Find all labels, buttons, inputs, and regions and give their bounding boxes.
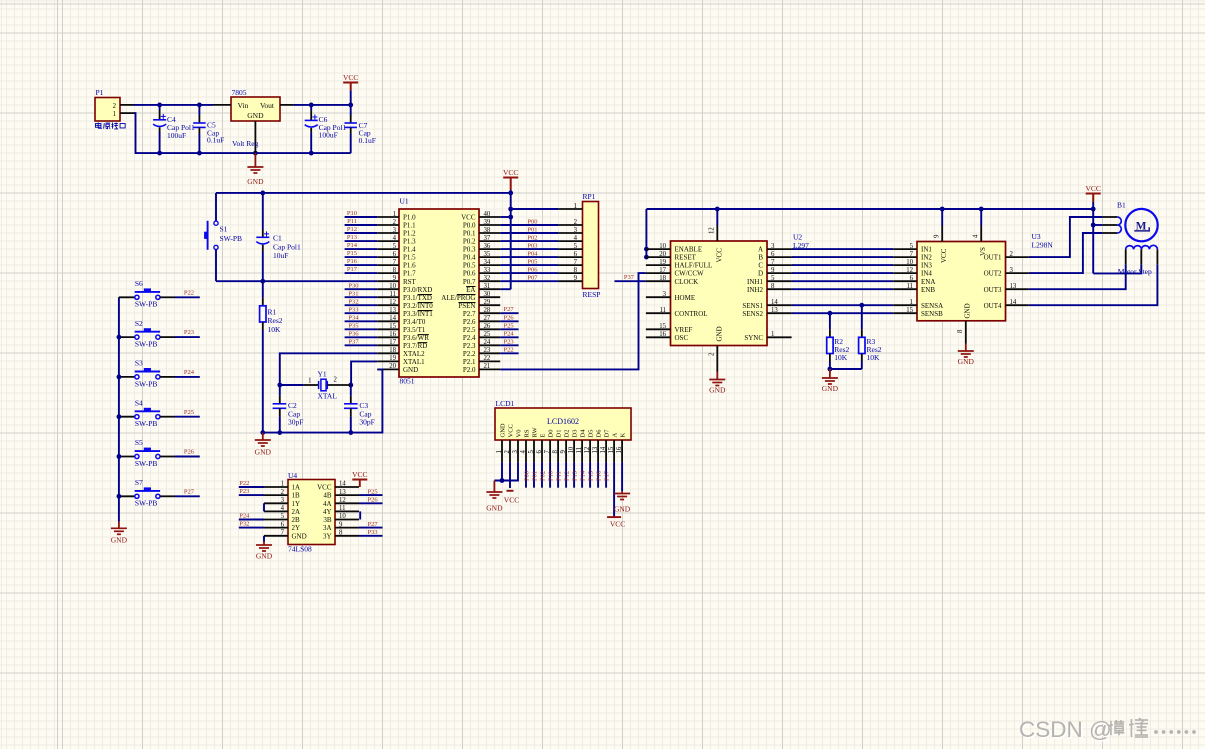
svg-text:D3: D3 xyxy=(572,430,579,438)
wire LCD pin15 A to VCC xyxy=(607,462,625,528)
svg-text:1: 1 xyxy=(308,378,311,385)
svg-text:2A: 2A xyxy=(292,508,301,516)
svg-text:P23: P23 xyxy=(184,329,194,336)
svg-text:32: 32 xyxy=(484,275,491,282)
svg-text:P0.2: P0.2 xyxy=(463,238,476,246)
power port VCC (LCD pin2) xyxy=(504,462,519,504)
node label P22 (U4) xyxy=(239,480,249,487)
wire LCD pin16 K to GND xyxy=(621,462,623,491)
node labels P27-P22 xyxy=(504,306,515,353)
svg-text:P30: P30 xyxy=(348,282,358,289)
svg-text:17: 17 xyxy=(659,267,666,274)
node label P23 (U4) xyxy=(239,488,249,495)
svg-text:HOME: HOME xyxy=(675,294,696,302)
svg-text:9: 9 xyxy=(934,234,941,238)
svg-text:RESET: RESET xyxy=(675,254,697,262)
svg-text:CONTROL: CONTROL xyxy=(675,310,708,318)
svg-text:2: 2 xyxy=(334,377,338,384)
ground GND (U4) xyxy=(256,542,273,561)
wire net P27 (U4 pin9) xyxy=(359,527,383,529)
svg-text:U4: U4 xyxy=(288,471,297,480)
svg-text:30: 30 xyxy=(484,291,491,298)
svg-text:1A: 1A xyxy=(292,484,301,492)
wire U1 pin21 P2.0 to U2 CW/CCW xyxy=(500,273,646,369)
switch S6 SW-PB (net P22) xyxy=(119,279,200,309)
op-amp U3 L298N motor driver xyxy=(893,209,1053,344)
svg-text:13: 13 xyxy=(771,307,778,314)
svg-text:100uF: 100uF xyxy=(167,131,186,140)
svg-text:P22: P22 xyxy=(239,480,249,487)
svg-text:10K: 10K xyxy=(268,325,282,334)
svg-text:10: 10 xyxy=(339,513,346,520)
svg-text:VCC: VCC xyxy=(940,248,948,263)
svg-text:3: 3 xyxy=(512,450,519,454)
wire U1 pin40 VCC xyxy=(500,216,511,218)
svg-text:30pF: 30pF xyxy=(288,417,303,426)
svg-text:10uF: 10uF xyxy=(273,251,288,260)
op-amp U2 L297 stepper controller xyxy=(646,209,809,372)
svg-text:P24: P24 xyxy=(184,369,195,376)
wire VIN rail (P1 pin2 to 7805 Vin) xyxy=(134,104,213,106)
svg-text:IN3: IN3 xyxy=(921,262,932,270)
svg-text:OUT3: OUT3 xyxy=(984,286,1002,294)
watermark CSDN xyxy=(1019,717,1196,744)
svg-text:16: 16 xyxy=(389,331,396,338)
svg-text:ENB: ENB xyxy=(921,286,935,294)
switch S1 SW-PB xyxy=(204,193,242,281)
motor B1 Motor Step xyxy=(1102,201,1157,276)
svg-text:P01: P01 xyxy=(527,226,537,233)
svg-text:100uF: 100uF xyxy=(319,131,338,140)
power port VCC (above U1) xyxy=(503,168,518,289)
svg-text:P07: P07 xyxy=(527,275,538,282)
junction VCC-pin40 xyxy=(508,215,513,220)
svg-text:P24: P24 xyxy=(504,330,515,337)
wire R2-R3 ground link xyxy=(830,368,862,370)
svg-text:P1: P1 xyxy=(96,88,104,97)
junction XTAL1-C3 xyxy=(348,383,353,388)
wire nets LCD data/control xyxy=(526,462,606,488)
svg-text:P32: P32 xyxy=(348,298,358,305)
svg-text:6: 6 xyxy=(536,450,543,454)
svg-text:P06: P06 xyxy=(527,267,538,274)
svg-text:2B: 2B xyxy=(292,516,301,524)
power port VCC (regulator output) xyxy=(343,73,358,105)
svg-text:P17: P17 xyxy=(604,470,611,481)
svg-text:GND: GND xyxy=(822,384,839,393)
svg-text:GND: GND xyxy=(958,357,975,366)
svg-text:6: 6 xyxy=(910,275,914,282)
svg-text:22: 22 xyxy=(484,355,491,362)
junction VIN-C5 xyxy=(197,103,202,108)
wire VCC bus (U2/U3/motor) xyxy=(646,208,1093,210)
svg-text:P0.3: P0.3 xyxy=(463,246,476,254)
junction VCC-resetrail xyxy=(508,191,513,196)
svg-text:Y1: Y1 xyxy=(318,370,327,379)
wire net P25 (U4 pin13) xyxy=(359,494,383,496)
svg-text:SW-PB: SW-PB xyxy=(135,379,158,388)
junction SENS1-R3 xyxy=(859,303,864,308)
svg-text:VCC: VCC xyxy=(317,484,332,492)
svg-text:P10: P10 xyxy=(548,471,555,481)
svg-text:6: 6 xyxy=(574,251,578,258)
junction bus-S4 xyxy=(117,414,122,419)
svg-text:21: 21 xyxy=(484,363,491,370)
svg-text:12: 12 xyxy=(906,267,913,274)
node label P37 xyxy=(624,274,635,281)
wire XTAL2 (U1 pin18 to crystal) xyxy=(280,353,378,385)
svg-text:A: A xyxy=(612,433,619,438)
svg-text:P0.5: P0.5 xyxy=(463,262,476,270)
svg-text:0.1uF: 0.1uF xyxy=(359,136,376,145)
junction GNDrail-C6 xyxy=(309,151,314,156)
svg-text:7: 7 xyxy=(393,259,397,266)
svg-text:Motor Step: Motor Step xyxy=(1118,267,1152,276)
svg-text:9: 9 xyxy=(574,275,578,282)
svg-text:14: 14 xyxy=(389,315,396,322)
svg-text:P00: P00 xyxy=(527,218,537,225)
svg-text:GND: GND xyxy=(292,532,307,540)
svg-text:P12: P12 xyxy=(564,471,571,481)
svg-text:INH1: INH1 xyxy=(747,278,763,286)
svg-text:P36: P36 xyxy=(348,330,359,337)
junction VCCdrop-RESET xyxy=(644,255,649,260)
svg-text:39: 39 xyxy=(484,219,491,226)
svg-text:P2.7: P2.7 xyxy=(463,310,476,318)
svg-text:P27: P27 xyxy=(184,488,195,495)
svg-text:P0.6: P0.6 xyxy=(463,270,476,278)
svg-text:3Y: 3Y xyxy=(323,532,332,540)
svg-text:V0: V0 xyxy=(516,430,523,438)
svg-text:VCC: VCC xyxy=(503,168,518,177)
svg-text:14: 14 xyxy=(600,446,607,453)
svg-text:13: 13 xyxy=(1010,283,1017,290)
wire OUT1 to motor winding A top xyxy=(1029,217,1103,257)
svg-text:3A: 3A xyxy=(323,524,332,532)
svg-text:K: K xyxy=(620,433,627,438)
svg-text:P26: P26 xyxy=(504,314,515,321)
svg-text:12: 12 xyxy=(584,446,591,453)
svg-text:P26: P26 xyxy=(184,449,195,456)
junction bus-U2pin12 xyxy=(715,207,720,212)
svg-text:OUT4: OUT4 xyxy=(984,302,1002,310)
svg-text:15: 15 xyxy=(659,323,666,330)
svg-text:5: 5 xyxy=(771,275,775,282)
svg-text:30pF: 30pF xyxy=(359,417,374,426)
svg-text:LCD1: LCD1 xyxy=(496,399,515,408)
wire net P23 (U4 pin2) xyxy=(239,494,264,496)
svg-text:17: 17 xyxy=(389,339,396,346)
wire U4 1Y-2A loop xyxy=(263,503,265,511)
svg-text:14: 14 xyxy=(771,299,778,306)
svg-text:P11: P11 xyxy=(347,218,357,225)
svg-text:9: 9 xyxy=(560,450,567,454)
svg-text:P02: P02 xyxy=(527,235,537,242)
svg-text:P16: P16 xyxy=(347,258,358,265)
svg-text:P00: P00 xyxy=(523,471,530,481)
svg-text:10K: 10K xyxy=(834,353,848,362)
svg-text:VCC: VCC xyxy=(508,424,515,437)
svg-text:VCC: VCC xyxy=(343,73,358,82)
svg-text:10: 10 xyxy=(659,243,666,250)
wire nets P30-P37 (U1 pins 10-17) xyxy=(345,289,378,345)
svg-text:18: 18 xyxy=(389,347,396,354)
svg-text:1: 1 xyxy=(496,450,503,453)
svg-text:8: 8 xyxy=(552,450,559,454)
capacitor C4 Cap Pol1 100uF xyxy=(153,105,195,153)
wire net P37 (to U2 CLOCK) xyxy=(615,280,646,282)
svg-text:L298N: L298N xyxy=(1032,241,1054,250)
ground GND (LCD right) xyxy=(614,491,631,513)
svg-text:OUT2: OUT2 xyxy=(984,270,1002,278)
svg-text:P37: P37 xyxy=(348,338,359,345)
svg-text:P13: P13 xyxy=(347,234,357,241)
svg-text:RW: RW xyxy=(532,427,539,438)
switch S7 SW-PB (net P27) xyxy=(119,478,200,508)
svg-text:P1.6: P1.6 xyxy=(403,262,416,270)
svg-text:6: 6 xyxy=(281,521,285,528)
wire LCD pin1 GND xyxy=(501,462,503,480)
svg-text:P0.1: P0.1 xyxy=(463,230,476,238)
svg-text:4: 4 xyxy=(574,235,578,242)
svg-text:P01: P01 xyxy=(531,471,538,481)
svg-text:D6: D6 xyxy=(596,429,603,438)
svg-text:VS: VS xyxy=(979,247,987,256)
svg-text:RESP: RESP xyxy=(583,290,601,299)
svg-text:P33: P33 xyxy=(368,529,378,536)
svg-text:INH2: INH2 xyxy=(747,286,763,294)
wire GND return rail (P1 pin1 along bottom) xyxy=(134,113,351,153)
svg-text:GND: GND xyxy=(111,535,128,544)
wire VCC to winding B centre tap xyxy=(1093,265,1141,274)
svg-text:IN2: IN2 xyxy=(921,254,932,262)
svg-text:P32: P32 xyxy=(239,521,249,528)
wire net SENS2 (U2 to U3 SENSB) xyxy=(792,312,894,314)
svg-text:6: 6 xyxy=(393,251,397,258)
junction VIN-C4 xyxy=(157,103,162,108)
svg-text:VCC: VCC xyxy=(610,520,625,529)
svg-text:ENA: ENA xyxy=(921,278,935,286)
svg-text:P11: P11 xyxy=(556,471,563,481)
node label P27 (U4) xyxy=(368,521,379,528)
crystal Y1 XTAL xyxy=(303,370,350,401)
capacitor C2 Cap 30pF xyxy=(273,385,304,433)
capacitor C6 Cap Pol1 100uF xyxy=(305,105,347,153)
power port VCC (U4 pin14) xyxy=(352,470,367,487)
svg-text:20: 20 xyxy=(659,251,666,258)
svg-text:8: 8 xyxy=(574,267,578,274)
svg-text:D7: D7 xyxy=(604,429,611,438)
svg-text:OSC: OSC xyxy=(675,334,689,342)
svg-text:3B: 3B xyxy=(323,516,332,524)
svg-text:8051: 8051 xyxy=(400,377,415,386)
svg-text:P33: P33 xyxy=(348,306,358,313)
svg-text:RP1: RP1 xyxy=(583,192,596,201)
svg-text:E: E xyxy=(540,434,547,438)
svg-text:Vout: Vout xyxy=(260,101,275,110)
svg-text:9: 9 xyxy=(339,521,343,528)
svg-text:GND: GND xyxy=(486,504,503,513)
svg-text:2: 2 xyxy=(1010,251,1014,258)
svg-text:D5: D5 xyxy=(588,430,595,438)
wire U4 4Y-3B loop xyxy=(359,511,361,519)
svg-text:1B: 1B xyxy=(292,492,301,500)
svg-text:3: 3 xyxy=(393,227,397,234)
svg-text:40: 40 xyxy=(484,211,491,218)
svg-text:P0.7: P0.7 xyxy=(463,278,476,286)
svg-text:5: 5 xyxy=(574,243,578,250)
junction bus-U3pin4 xyxy=(979,207,984,212)
svg-text:HALF/FULL: HALF/FULL xyxy=(675,262,713,270)
junction LCD gnd xyxy=(500,478,505,483)
junction GNDrail-7805 xyxy=(253,151,258,156)
ground GND (U2) xyxy=(709,372,726,395)
svg-text:SW-PB: SW-PB xyxy=(135,419,158,428)
ground GND (power supply) xyxy=(247,153,264,186)
svg-text:SW-PB: SW-PB xyxy=(220,234,243,243)
svg-text:GND: GND xyxy=(964,303,972,318)
svg-text:36: 36 xyxy=(484,243,491,250)
capacitor C3 Cap 30pF xyxy=(344,385,375,433)
svg-text:P23: P23 xyxy=(239,488,249,495)
svg-text:CLOCK: CLOCK xyxy=(675,278,699,286)
svg-text:P25: P25 xyxy=(184,409,194,416)
junction R2-gnd xyxy=(828,367,833,372)
svg-text:S5: S5 xyxy=(135,438,143,447)
svg-text:20: 20 xyxy=(389,363,396,370)
svg-text:18: 18 xyxy=(659,275,666,282)
svg-text:14: 14 xyxy=(1010,299,1017,306)
capacitor C7 Cap 0.1uF xyxy=(344,105,375,153)
svg-text:IN4: IN4 xyxy=(921,270,932,278)
wire nets P22-P27 (U1 P2 port) xyxy=(500,313,518,353)
resistor R2 Res2 10K xyxy=(827,313,850,369)
svg-text:P1.7: P1.7 xyxy=(403,270,416,278)
svg-text:S3: S3 xyxy=(135,359,143,368)
svg-text:4: 4 xyxy=(393,235,397,242)
svg-text:P1.0: P1.0 xyxy=(403,214,416,222)
svg-text:S6: S6 xyxy=(135,279,143,288)
svg-text:2: 2 xyxy=(393,219,397,226)
svg-text:S7: S7 xyxy=(135,478,143,487)
node labels P30-P37 xyxy=(348,282,359,345)
svg-text:P1.3: P1.3 xyxy=(403,238,416,246)
wire OUT2 to motor winding A bottom xyxy=(1029,233,1103,273)
svg-text:11: 11 xyxy=(659,307,666,314)
svg-text:4: 4 xyxy=(973,234,980,238)
svg-text:29: 29 xyxy=(484,299,491,306)
svg-text:2: 2 xyxy=(281,489,285,496)
svg-text:2: 2 xyxy=(113,103,117,110)
node labels P00-P07 xyxy=(527,218,538,281)
svg-text:RST: RST xyxy=(403,278,417,286)
svg-text:5: 5 xyxy=(393,243,397,250)
svg-text:P22: P22 xyxy=(504,346,514,353)
svg-text:15: 15 xyxy=(906,307,913,314)
svg-text:10: 10 xyxy=(389,283,396,290)
svg-text:RS: RS xyxy=(524,429,531,437)
svg-text:7: 7 xyxy=(771,259,775,266)
wire XTAL1 (U1 pin19 to crystal) xyxy=(351,361,377,385)
node label P33 (U4) xyxy=(368,529,378,536)
svg-text:16: 16 xyxy=(659,331,666,338)
svg-text:8: 8 xyxy=(393,267,397,274)
svg-text:7: 7 xyxy=(281,530,285,537)
svg-text:P24: P24 xyxy=(239,513,250,520)
svg-text:1: 1 xyxy=(574,203,577,210)
op-amp U4 74LS08 quad AND gate xyxy=(264,471,359,554)
wire nets U2 phase outputs to U3 inputs xyxy=(792,249,894,289)
connector P1 电源接口 xyxy=(95,88,134,129)
wire net P33 (U4 pin8) xyxy=(359,535,383,537)
svg-text:VCC: VCC xyxy=(352,470,367,479)
svg-text:P27: P27 xyxy=(368,521,379,528)
svg-text:P2.0: P2.0 xyxy=(463,366,476,374)
svg-text:GND: GND xyxy=(247,177,264,186)
junction RST-R1 xyxy=(260,279,265,284)
svg-text:28: 28 xyxy=(484,307,491,314)
junction bus-U3pin9 xyxy=(940,207,945,212)
wire net RST (to U1 pin 9) xyxy=(216,280,377,282)
svg-text:13: 13 xyxy=(592,446,599,453)
junction bus-S3 xyxy=(117,375,122,380)
svg-text:11: 11 xyxy=(389,291,396,298)
svg-text:19: 19 xyxy=(389,355,396,362)
svg-text:P03: P03 xyxy=(527,243,537,250)
svg-text:2: 2 xyxy=(504,450,511,454)
ground GND (U3) xyxy=(958,344,975,367)
svg-text:P2.4: P2.4 xyxy=(463,334,476,342)
node label P26 (U4) xyxy=(368,497,379,504)
svg-text:16: 16 xyxy=(616,446,623,453)
svg-text:19: 19 xyxy=(659,259,666,266)
wire LCD pin3 V0 to GND xyxy=(494,462,518,480)
ground GND (sense resistors) xyxy=(822,369,839,393)
junction VCC-windingA xyxy=(1091,223,1096,228)
svg-text:D0: D0 xyxy=(548,430,555,438)
svg-text:7805: 7805 xyxy=(232,88,247,97)
svg-text:P2.1: P2.1 xyxy=(463,358,476,366)
svg-text:VCC: VCC xyxy=(461,214,476,222)
svg-text:P3.4/T0: P3.4/T0 xyxy=(403,318,426,326)
svg-text:S1: S1 xyxy=(220,224,228,233)
svg-text:4Y: 4Y xyxy=(323,508,332,516)
svg-text:Volt Reg: Volt Reg xyxy=(232,139,259,148)
svg-text:P1.5: P1.5 xyxy=(403,254,416,262)
svg-text:74LS08: 74LS08 xyxy=(288,545,312,554)
resistor pack RP1 RESP xyxy=(558,192,600,299)
svg-text:8: 8 xyxy=(771,283,775,290)
svg-text:0.1uF: 0.1uF xyxy=(207,136,224,145)
junction VCCrail-C7 xyxy=(348,103,353,108)
svg-text:37: 37 xyxy=(484,235,491,242)
svg-text:P22: P22 xyxy=(184,289,194,296)
svg-text:2: 2 xyxy=(709,352,716,356)
svg-text:P12: P12 xyxy=(347,226,357,233)
wire net P22 (U4 pin1) xyxy=(239,486,264,488)
svg-text:P1.1: P1.1 xyxy=(403,222,416,230)
svg-text:P27: P27 xyxy=(504,306,515,313)
wire net P24 (U4 pin5) xyxy=(239,519,264,521)
junction gndrail-R1 xyxy=(260,430,265,435)
node labels P10-P17 xyxy=(347,210,358,273)
wire net SENS1 (U2 to U3 SENSA) xyxy=(792,304,894,306)
junction bus-S7 xyxy=(117,494,122,499)
junction GNDrail-C4 xyxy=(157,151,162,156)
svg-text:3: 3 xyxy=(771,243,775,250)
svg-text:11: 11 xyxy=(906,283,913,290)
svg-text:12: 12 xyxy=(709,227,716,234)
